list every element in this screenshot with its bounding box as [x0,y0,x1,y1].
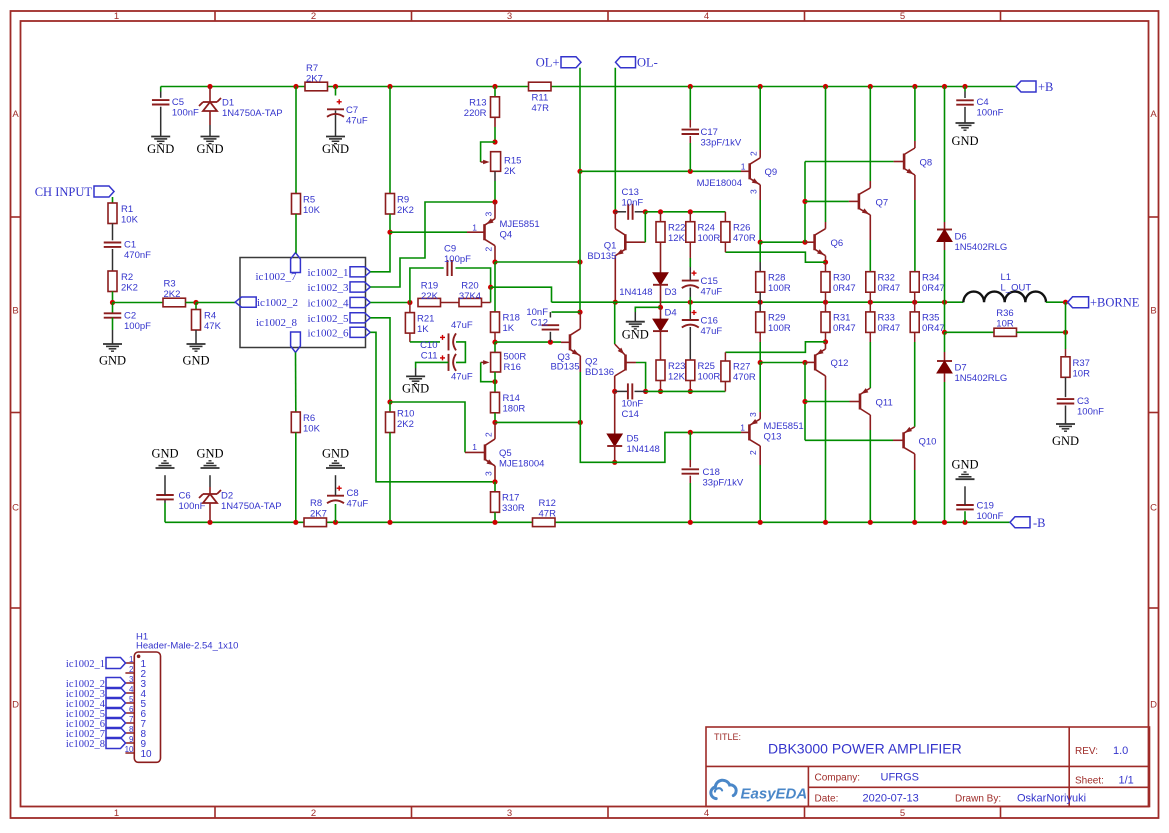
svg-text:Header-Male-2.54_1x10: Header-Male-2.54_1x10 [136,641,238,652]
resistor R8 [304,498,327,527]
wire junction-C2 [112,303,114,314]
wire Q9 base [580,170,741,172]
header H1 Header-Male-2.54_1x10 [134,632,238,763]
svg-text:R36: R36 [996,308,1013,319]
svg-text:ic1002_8: ic1002_8 [66,739,105,750]
wire Q4 base [390,231,467,233]
resistor R5 [292,194,321,217]
wire Q11 base wire [805,401,850,403]
svg-text:2: 2 [748,450,758,455]
resistor R14 [491,392,526,414]
svg-text:R25: R25 [698,361,715,372]
wire D5 lead [614,391,616,434]
svg-text:BD135: BD135 [550,362,579,373]
junction rail-Q6c [823,84,828,89]
resistor R25 [686,360,721,383]
resistor R33 [866,312,900,334]
svg-text:R17: R17 [502,493,519,504]
svg-text:1/1: 1/1 [1119,775,1134,787]
svg-text:C2: C2 [124,311,136,322]
wire Q12 base wire [760,362,805,364]
transistor Q12 [805,342,848,523]
svg-text:1N4750A-TAP: 1N4750A-TAP [221,501,282,512]
svg-text:R13: R13 [469,98,486,109]
net flag ic1002_1 (header) [66,658,126,670]
junction D5 cathode node [612,460,617,465]
junction rail-Q12c [823,520,828,525]
svg-text:10K: 10K [303,424,321,435]
svg-text:2K7: 2K7 [306,74,323,85]
svg-text:DBK3000 POWER AMPLIFIER: DBK3000 POWER AMPLIFIER [768,741,962,757]
svg-text:A: A [1150,109,1157,120]
resistor R19 [418,281,441,307]
wire R13-R15 [494,117,496,142]
power flag -B [1010,516,1046,530]
junction C12 bottom [548,340,553,345]
net flag ic1002_7 (header) [66,728,126,740]
svg-text:3: 3 [484,471,494,476]
wire R30-rail [825,292,827,302]
svg-text:Q7: Q7 [876,198,889,209]
svg-text:5: 5 [900,11,905,22]
trimmer R15 [481,152,522,177]
wire R34-rail [914,292,916,302]
wire BORNE column [1065,302,1067,332]
junction Q4 collector node [492,199,497,204]
wire rail-R29 [759,302,761,312]
junction R15 wiper node [492,139,497,144]
wire C8-GND [335,475,337,496]
wire R22 top lead [660,212,662,222]
capacitor C17 [682,127,742,149]
svg-text:C3: C3 [1077,396,1089,407]
svg-text:47uF: 47uF [701,326,723,337]
svg-text:GND: GND [196,447,223,461]
resistor R4 [192,310,222,333]
trimmer R16 [481,352,527,374]
wire -B bottom rail [165,521,1010,523]
ground GND C8 [322,447,349,469]
wire rail-R33 [869,302,871,312]
svg-text:2K2: 2K2 [397,419,414,430]
svg-text:R34: R34 [922,273,939,284]
ground GND C4 [951,123,978,148]
diode D7 1N5402RLG [937,361,1007,384]
header pin 6 [125,705,146,720]
junction rail-R9 [387,84,392,89]
transistor Q6 [805,87,843,263]
svg-text:D4: D4 [665,308,677,319]
wire C9 right [456,268,491,287]
svg-text:22K: 22K [421,291,439,302]
svg-text:100R: 100R [698,233,721,244]
junction rail-D7 [942,520,947,525]
wire R14-node [494,413,496,423]
wire R21-C10 [410,333,440,342]
svg-text:C12: C12 [531,318,548,329]
resistor R17 [491,492,525,514]
wire +B top rail [161,86,964,88]
svg-text:C4: C4 [977,97,989,108]
svg-text:Q4: Q4 [500,230,513,241]
wire R20 right lead [482,302,491,304]
zener diode D2 1N4750A-TAP [199,490,282,512]
wire R4-GND [195,330,197,344]
wire +B rail right of L1 gap [965,86,1016,88]
svg-text:470R: 470R [733,372,756,383]
svg-text:100pF: 100pF [124,321,151,332]
wire C14net [646,390,726,392]
net flag ic1002_2 (header) [66,678,126,690]
svg-text:33pF/1kV: 33pF/1kV [701,138,742,149]
svg-text:C8: C8 [347,488,359,499]
header pin 4 [125,685,146,700]
diode D3 1N4148 [619,273,676,298]
header pin 2 [125,665,146,680]
capacitor C10 polarized [420,320,473,351]
svg-text:GND: GND [182,354,209,368]
junction R10 top node [387,399,392,404]
junction Q2 collector node [612,389,617,394]
wire R37-C3 [1065,377,1067,397]
net flag CH INPUT [35,185,114,199]
wire Q4e-R18 [494,262,496,312]
svg-text:D6: D6 [955,232,967,243]
diode D4 1N4148 [653,308,677,332]
junction rail-R6 [293,520,298,525]
svg-text:OL+: OL+ [536,56,560,70]
svg-text:1N4148: 1N4148 [619,287,652,298]
svg-text:500R: 500R [504,352,527,363]
wire R37 lead [1065,332,1067,357]
svg-text:A: A [12,109,19,120]
svg-text:C: C [12,503,19,514]
pin ic1002_3 (right) [308,282,371,294]
capacitor C6 [156,491,205,513]
svg-text:Q9: Q9 [765,167,778,178]
svg-text:R24: R24 [698,223,715,234]
svg-text:2K2: 2K2 [121,283,138,294]
svg-text:R18: R18 [503,313,520,324]
svg-text:R15: R15 [504,156,521,167]
svg-text:100nF: 100nF [1077,407,1104,418]
junction R36 right node [1063,330,1068,335]
svg-text:MJE18004: MJE18004 [697,178,742,189]
transistor Q10 [893,427,936,523]
wire C12 bottom lead [549,332,551,342]
svg-text:47uF: 47uF [347,499,369,510]
junction C17 bottom [688,169,693,174]
resistor R12 [533,498,557,527]
wire C14 left lead [615,390,627,392]
wire C16-R25 [689,327,691,360]
svg-text:R9: R9 [397,195,409,206]
resistor R31 [821,312,856,334]
svg-text:4: 4 [704,808,709,819]
junction rail-D2 [207,520,212,525]
svg-text:47uF: 47uF [701,287,723,298]
net flag ic1002_3 (header) [66,688,126,700]
resistor R28 [756,272,791,294]
wire R27 top lead [724,352,726,361]
resistor R20 [459,281,482,307]
ground GND C5 [147,137,174,157]
svg-text:OskarNoriyuki: OskarNoriyuki [1017,793,1086,805]
svg-text:3: 3 [507,808,512,819]
pin ic1002_4 (right) [308,297,371,309]
svg-text:R28: R28 [768,273,785,284]
ground GND C6 [151,447,178,469]
junction rail R30/R31 [823,300,828,305]
svg-text:100pF: 100pF [444,254,471,265]
svg-text:100nF: 100nF [179,501,206,512]
svg-text:L1: L1 [1001,272,1012,283]
svg-text:REV:: REV: [1075,746,1098,757]
wire R1-C1 [112,224,114,241]
svg-text:ic1002_7: ic1002_7 [256,271,297,283]
svg-text:ic1002_8: ic1002_8 [256,317,297,329]
svg-text:D7: D7 [955,363,967,374]
capacitor C8 polarized [327,486,368,510]
svg-text:R14: R14 [503,393,520,404]
svg-text:1: 1 [114,11,119,22]
junction rail C15/C16 [688,300,693,305]
wire R26 bottom lead [724,242,726,252]
junction rail-Q11c [868,520,873,525]
wire R24 top lead [689,212,691,222]
ground GND D2 [196,447,223,469]
junction rail-R10 [387,520,392,525]
wire ic1002_5 to R10 [370,318,390,402]
wire OL+ vertical [579,68,581,172]
ground GND R4 [182,344,209,368]
ground GND C7 [322,137,349,157]
svg-text:C15: C15 [701,276,718,287]
ground GND D3/D4 [622,322,649,342]
junction Q2 base node [643,389,648,394]
wire R33-Q11 [869,332,871,388]
svg-text:GND: GND [322,447,349,461]
resistor R37 [1061,357,1090,380]
svg-text:Q12: Q12 [831,358,849,369]
svg-text:3: 3 [748,412,758,417]
wire D6-rail [944,242,946,303]
svg-text:Q10: Q10 [919,437,937,448]
svg-text:2K2: 2K2 [397,205,414,216]
wire node to mid rail [491,287,552,302]
svg-text:+BORNE: +BORNE [1090,296,1140,310]
junction rail-D1 [207,84,212,89]
svg-text:L_OUT: L_OUT [1001,283,1032,294]
svg-text:R4: R4 [204,311,216,322]
svg-text:R21: R21 [417,314,434,325]
wire R4 lead [195,303,197,310]
svg-text:C18: C18 [703,467,720,478]
svg-text:EasyEDA: EasyEDA [741,785,808,802]
wire D4-R23 [660,331,662,360]
junction rail R32/R33 [868,300,873,305]
wire L1-BORNE [1046,301,1068,303]
svg-text:1: 1 [741,162,746,172]
header pin 10 [125,745,152,760]
junction rail R28/R29 [758,300,763,305]
svg-text:D: D [1150,700,1157,711]
svg-text:GND: GND [196,142,223,156]
svg-text:ic1002_5: ic1002_5 [308,313,349,325]
wire C15-rail [689,288,691,303]
junction C18 top node [688,430,693,435]
resistor R29 [756,312,791,334]
junction OL+ Q4e [577,259,582,264]
svg-text:1N5402RLG: 1N5402RLG [955,242,1008,253]
svg-text:BD136: BD136 [585,367,614,378]
diode D5 1N4148 [607,434,660,456]
svg-text:R22: R22 [668,223,685,234]
wire flag to R1 [112,197,114,203]
wire R31-node [825,332,827,341]
svg-text:10: 10 [141,749,153,760]
wire C18 bottom lead [689,476,691,523]
svg-text:D3: D3 [665,287,677,298]
capacitor C12 [526,307,559,330]
svg-text:100nF: 100nF [977,511,1004,522]
svg-text:1: 1 [472,223,477,233]
capacitor C3 [1057,396,1104,418]
junction Q1 emitter rail [613,300,618,305]
svg-text:R1: R1 [121,204,133,215]
svg-text:47uF: 47uF [346,116,368,127]
wire rail-R31 [825,302,827,312]
junction rail-Q8c [912,84,917,89]
svg-text:3: 3 [484,212,494,217]
svg-text:Date:: Date: [815,794,839,805]
net flag OL- [616,56,658,70]
header pin 9 [125,735,146,750]
svg-text:R20: R20 [461,281,478,292]
pin ic1002_8 (bottom) [256,317,300,352]
svg-text:3: 3 [507,11,512,22]
wire R35-Q10 [914,332,916,426]
wire C2-GND [112,318,114,344]
resistor R26 [721,222,756,244]
capacitor C1 [104,240,151,262]
svg-text:Q13: Q13 [764,432,782,443]
wire R22-D3 [660,242,662,273]
inductor L1 L_OUT [963,272,1046,302]
junction Q9e-R28-Q6base [758,240,763,245]
junction R22 top [658,209,663,214]
wire R16-R14 [494,372,496,392]
wire R21 body lead [409,303,411,313]
svg-text:R8: R8 [310,498,322,509]
wire base net to R22/R24 [645,211,725,213]
resistor R32 [866,272,900,294]
svg-text:0R47: 0R47 [878,283,901,294]
svg-text:GND: GND [951,458,978,472]
wire Q8 base wire [805,161,894,163]
wire rail-R9 [389,87,391,194]
svg-text:D2: D2 [221,491,233,502]
svg-text:R3: R3 [164,279,176,290]
svg-text:2: 2 [129,665,134,674]
capacitor C14 [622,383,644,420]
svg-text:8: 8 [129,725,134,734]
svg-text:R7: R7 [306,63,318,74]
svg-text:C6: C6 [179,491,191,502]
svg-text:ic1002_4: ic1002_4 [308,298,349,310]
svg-text:C11: C11 [421,351,438,362]
svg-text:D: D [12,700,19,711]
svg-text:R12: R12 [539,498,556,509]
svg-text:ic1002_6: ic1002_6 [308,327,349,339]
svg-text:37K4: 37K4 [459,291,481,302]
junction rail-C18 [688,520,693,525]
svg-text:C19: C19 [977,501,994,512]
svg-text:C16: C16 [701,316,718,327]
resistor R9 [386,194,414,217]
svg-text:R19: R19 [421,281,438,292]
power flag +B [1016,80,1053,94]
net flag +BORNE [1068,296,1140,310]
junction R7-R5 [293,84,298,89]
wire C1-R2 [112,249,114,271]
wire R10-rail [389,433,391,523]
svg-text:10K: 10K [303,205,321,216]
svg-text:0R47: 0R47 [833,323,856,334]
wire R26 top lead [724,212,726,222]
resistor R22 [656,222,686,244]
svg-text:2: 2 [311,808,316,819]
svg-text:Q8: Q8 [920,158,933,169]
IC block ic1002 outline [240,258,366,348]
ground GND C19 [951,458,978,480]
svg-text:4: 4 [704,11,709,22]
svg-text:C14: C14 [622,409,639,420]
svg-text:10nF: 10nF [622,399,644,410]
svg-text:R11: R11 [532,92,549,103]
wire D5 node to Q13 base [615,432,741,462]
wire R23-C14net [660,381,662,392]
capacitor C11 polarized [421,351,473,383]
svg-text:TITLE:: TITLE: [714,732,741,742]
resistor R27 [721,361,756,383]
svg-text:Q1: Q1 [604,240,617,251]
transistor Q8 [894,87,933,272]
junction rail-Q9c [758,84,763,89]
wire R29-node [759,332,761,362]
svg-text:Q6: Q6 [831,238,844,249]
wire Q2 base jog [636,363,646,392]
svg-text:C13: C13 [622,187,639,198]
wire R27 bottom lead [724,382,726,392]
svg-text:47R: 47R [532,103,550,114]
pin ic1002_2 (left) [235,297,298,309]
transistor Q3 BD135 [550,312,580,422]
pin ic1002_6 (right) [308,327,371,339]
junction Q5 emitter node [492,479,497,484]
wire C4 lead [964,87,966,124]
junction rail-D6 [942,84,947,89]
resistor R34 [910,272,945,294]
wire R6-rail [295,433,297,523]
svg-text:10nF: 10nF [526,307,548,318]
svg-text:10R: 10R [996,319,1014,330]
net flag ic1002_6 (header) [66,718,126,730]
svg-text:100nF: 100nF [172,108,199,119]
wire Q5e-R17 [494,482,496,492]
junction Q12 emitter node [823,339,828,344]
svg-text:C9: C9 [444,244,456,255]
